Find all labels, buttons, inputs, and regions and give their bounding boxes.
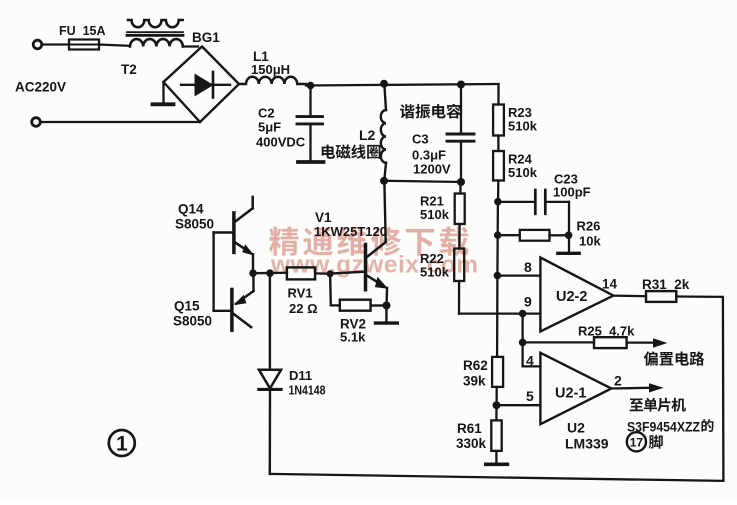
svg-text:14: 14 xyxy=(602,277,618,292)
svg-text:5.1k: 5.1k xyxy=(340,330,366,345)
svg-text:S8050: S8050 xyxy=(173,314,212,329)
capacitor C2 xyxy=(309,86,311,116)
node R26 right xyxy=(565,232,573,240)
svg-text:R26: R26 xyxy=(577,219,601,234)
svg-text:U2-2: U2-2 xyxy=(556,289,587,305)
resistor R23 xyxy=(493,105,504,136)
node C3 top xyxy=(457,81,465,89)
svg-text:400VDC: 400VDC xyxy=(256,135,306,150)
wire xyxy=(495,387,497,405)
arrow to bias circuit xyxy=(653,338,667,348)
circled 17 pin xyxy=(627,432,646,451)
svg-text:D11: D11 xyxy=(289,368,312,383)
wire xyxy=(497,136,499,152)
node L2 top xyxy=(380,80,388,88)
wire output pin 2 xyxy=(611,387,649,390)
svg-text:LM339: LM339 xyxy=(565,436,609,452)
label jiao xyxy=(649,435,663,449)
inductor L2 coil xyxy=(384,84,386,110)
wire xyxy=(459,182,462,194)
wire xyxy=(458,224,461,249)
svg-text:330k: 330k xyxy=(456,436,487,451)
svg-text:510k: 510k xyxy=(508,119,538,134)
wire xyxy=(315,272,330,275)
svg-text:5μF: 5μF xyxy=(258,120,281,135)
ground below RV2/V1 xyxy=(385,306,388,322)
svg-text:Q15: Q15 xyxy=(174,299,200,314)
bridge rectifier BG1 diamond xyxy=(164,47,240,123)
ground below C2 xyxy=(298,160,324,164)
wire xyxy=(41,121,200,123)
svg-text:FU 15A: FU 15A xyxy=(59,24,106,38)
node RV1 right xyxy=(327,270,334,277)
node Q14 emitter xyxy=(249,269,257,277)
svg-text:T2: T2 xyxy=(121,62,137,77)
svg-text:C2: C2 xyxy=(258,106,275,121)
svg-text:U2-1: U2-1 xyxy=(555,386,586,402)
resistor R21 xyxy=(455,194,465,225)
wire xyxy=(495,451,497,463)
wire xyxy=(550,234,568,236)
svg-text:U2: U2 xyxy=(567,420,585,436)
wire top rail xyxy=(306,84,499,86)
node R25 row xyxy=(519,339,527,347)
node R26 row xyxy=(494,231,502,239)
bridge diode xyxy=(181,84,230,86)
svg-text:22 Ω: 22 Ω xyxy=(289,301,318,316)
wire xyxy=(497,181,499,202)
wire feedback right xyxy=(676,297,723,481)
node V1 emitter xyxy=(383,302,391,310)
svg-text:10k: 10k xyxy=(579,234,601,249)
wire pin 4 xyxy=(523,342,541,366)
label zhi-danpianji xyxy=(630,398,643,411)
resistor R22 xyxy=(454,249,464,282)
wire xyxy=(521,314,523,343)
wire xyxy=(627,341,654,343)
svg-text:1KW25T120: 1KW25T120 xyxy=(314,224,387,239)
resistor R26 xyxy=(520,230,550,241)
figure mark 1 xyxy=(109,430,135,456)
capacitor C23 xyxy=(534,190,537,214)
resistor RV1 xyxy=(287,267,315,279)
wire xyxy=(42,43,69,45)
watermark red text xyxy=(269,227,468,256)
node R24 bottom xyxy=(494,198,502,206)
svg-text:S8050: S8050 xyxy=(175,217,214,232)
diode D11 xyxy=(259,370,281,389)
label dianci-xianquan xyxy=(322,145,335,159)
svg-text:510k: 510k xyxy=(508,165,538,180)
resistor R25 xyxy=(594,337,627,348)
resistor R24 xyxy=(493,151,504,181)
resistor R62 xyxy=(492,357,503,387)
svg-text:0.3μF: 0.3μF xyxy=(412,148,446,163)
op-amp U2-2 xyxy=(540,258,613,332)
svg-text:17: 17 xyxy=(630,435,644,449)
wire xyxy=(253,272,287,275)
node L2 bottom xyxy=(380,177,388,185)
svg-text:5: 5 xyxy=(526,388,534,404)
transformer T2 secondary winding xyxy=(128,20,183,27)
svg-text:150μH: 150μH xyxy=(251,62,290,77)
svg-text:1N4148: 1N4148 xyxy=(289,383,326,398)
wire xyxy=(496,276,499,357)
capacitor C3 xyxy=(460,85,462,133)
ground at bridge xyxy=(162,82,164,103)
node pin8 row xyxy=(494,272,502,280)
wire xyxy=(497,84,499,105)
svg-text:R31 2k: R31 2k xyxy=(642,277,690,292)
wire xyxy=(183,45,198,47)
transformer T2 core xyxy=(127,31,183,33)
node A xyxy=(307,82,315,90)
svg-text:4: 4 xyxy=(526,353,534,369)
svg-text:L2: L2 xyxy=(359,127,376,143)
wire xyxy=(498,201,534,203)
wire xyxy=(498,234,520,236)
svg-text:2: 2 xyxy=(614,373,622,389)
arrow to MCU xyxy=(649,383,664,392)
terminal upper AC input xyxy=(33,40,42,49)
svg-text:Q14: Q14 xyxy=(178,202,204,217)
svg-text:1: 1 xyxy=(116,433,128,456)
wire xyxy=(458,281,460,314)
wire xyxy=(523,341,594,343)
label xiezhen-dianrong xyxy=(400,104,415,118)
wire feedback bottom xyxy=(270,474,724,481)
svg-text:RV1: RV1 xyxy=(288,286,313,301)
op-amp U2-1 xyxy=(540,353,611,424)
node pin 9 xyxy=(519,310,527,318)
wire xyxy=(496,235,499,275)
node pin5 row xyxy=(493,401,501,409)
svg-text:R25 4.7k: R25 4.7k xyxy=(578,324,635,339)
wire pin 8 xyxy=(497,274,540,276)
wire xyxy=(269,389,272,474)
wire xyxy=(330,274,340,306)
svg-text:AC220V: AC220V xyxy=(15,80,66,95)
wire xyxy=(497,202,499,236)
wire pin 14 out xyxy=(613,294,646,297)
wire xyxy=(269,273,271,369)
svg-text:BG1: BG1 xyxy=(192,30,220,45)
wire Q14-Q15 base xyxy=(214,233,231,311)
svg-text:R62: R62 xyxy=(463,358,488,373)
transformer T2 primary winding xyxy=(130,39,183,46)
svg-text:510k: 510k xyxy=(420,265,450,280)
label pianzhi-dianlu xyxy=(644,351,658,365)
svg-text:R61: R61 xyxy=(457,421,482,436)
svg-text:39k: 39k xyxy=(463,374,486,389)
node D11 top xyxy=(266,269,274,277)
inductor L1 xyxy=(239,77,306,84)
ground below R26 xyxy=(568,235,570,252)
transistor Q15 xyxy=(230,289,234,330)
svg-text:C3: C3 xyxy=(412,132,429,147)
resistor R61 xyxy=(491,420,501,451)
wire xyxy=(384,181,461,182)
node C3 bottom xyxy=(457,178,465,186)
terminal lower AC input xyxy=(32,118,41,127)
resistor RV2 xyxy=(340,300,371,311)
svg-text:510k: 510k xyxy=(420,207,450,222)
resistor R31 xyxy=(646,291,676,302)
wire xyxy=(99,45,130,46)
ground below R61 xyxy=(486,462,508,466)
wire pin 5 xyxy=(497,404,541,406)
svg-text:V1: V1 xyxy=(315,210,332,225)
svg-text:8: 8 xyxy=(524,259,532,275)
fuse FU 15A xyxy=(69,40,99,50)
svg-text:9: 9 xyxy=(524,294,532,310)
svg-text:1200V: 1200V xyxy=(413,162,451,177)
svg-text:100pF: 100pF xyxy=(553,185,591,200)
transistor V1 IGBT xyxy=(364,245,368,290)
transistor Q14 xyxy=(232,213,236,253)
wire xyxy=(371,304,383,306)
wire xyxy=(495,405,497,420)
